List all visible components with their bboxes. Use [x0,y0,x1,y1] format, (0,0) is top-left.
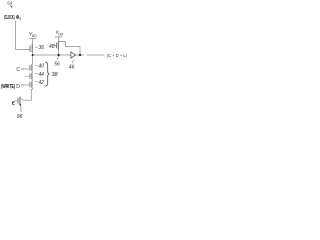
svg-text:38: 38 [51,72,58,78]
svg-text:56: 56 [54,61,60,67]
svg-text:1: 1 [19,16,21,20]
svg-text:44: 44 [38,72,44,78]
svg-text:96: 96 [17,114,23,120]
svg-text:C: C [16,67,20,73]
svg-text:54: 54 [7,0,13,5]
svg-text:40: 40 [38,64,44,70]
svg-text:(WRITE): (WRITE) [1,84,15,90]
svg-text:46: 46 [69,64,75,70]
svg-text:D: D [16,84,20,90]
svg-text:(C + D + L): (C + D + L) [107,53,128,59]
svg-text:(CLOCK): (CLOCK) [4,15,15,21]
svg-text:42: 42 [38,80,44,86]
svg-text:36: 36 [39,45,45,51]
svg-text:DD: DD [32,34,37,38]
svg-text:48: 48 [49,44,55,50]
svg-text:DD: DD [58,32,63,36]
